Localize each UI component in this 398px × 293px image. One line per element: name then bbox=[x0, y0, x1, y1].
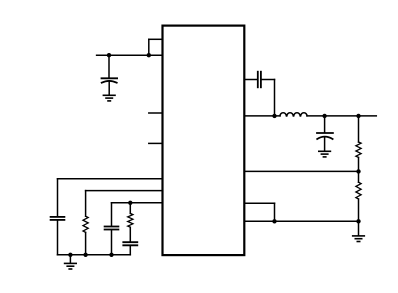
wire C2 to corner bbox=[262, 79, 275, 81]
ground G1 bbox=[103, 95, 115, 101]
inductor L1 bbox=[280, 113, 307, 116]
wire C4 bottom lead bbox=[57, 221, 59, 255]
wire C1 top lead bbox=[108, 55, 110, 77]
wire pin to C2 bbox=[244, 79, 257, 81]
wire VOUT rail left bbox=[244, 115, 280, 117]
node A junction at jog bbox=[147, 53, 151, 57]
wire R3 top lead bbox=[85, 191, 87, 217]
wire C6 bottom lead bbox=[129, 246, 131, 255]
wire R2 bottom lead bbox=[358, 199, 360, 221]
wire W3 to pin 5 bbox=[86, 190, 163, 192]
wire C4 top lead bbox=[57, 179, 59, 216]
wire W2 to pin 4 bbox=[58, 178, 163, 180]
wire C3 bottom lead bbox=[324, 137, 326, 151]
wire corner down to VOUT rail bbox=[274, 80, 276, 116]
IC U1 bbox=[163, 26, 245, 256]
node rail junction G4 bbox=[68, 253, 72, 257]
node rail junction C5 bbox=[109, 253, 113, 257]
wire G3 stub bbox=[358, 221, 360, 235]
node B junction on W4 bbox=[128, 201, 132, 205]
wire W4 to pin 6 bbox=[112, 202, 163, 204]
node VOUT junction R1 bbox=[356, 114, 360, 118]
wire W5 pin to R1/R2 bbox=[244, 170, 358, 172]
capacitor C6 bbox=[123, 242, 137, 245]
node W7 junction R2/G3 bbox=[356, 219, 360, 223]
wire R1 bottom lead bbox=[358, 157, 360, 171]
wire C1 bottom lead bbox=[108, 81, 110, 94]
pin stub left NC pin 2 bbox=[149, 112, 163, 114]
pin stub upper-left pin 1 bbox=[149, 38, 163, 40]
wire C5 top lead bbox=[111, 203, 113, 226]
resistor R1 bbox=[356, 142, 361, 157]
wire R2 top lead bbox=[358, 171, 360, 182]
wire R4 top lead bbox=[129, 203, 131, 214]
node VOUT junction C2 branch bbox=[272, 114, 276, 118]
resistor R2 bbox=[356, 182, 361, 199]
ground G3 bbox=[353, 236, 365, 242]
capacitor C5 bbox=[105, 227, 119, 230]
node rail junction R3 bbox=[83, 253, 87, 257]
ground G2 bbox=[319, 151, 331, 157]
ground G4 bbox=[65, 263, 77, 269]
wire ground rail bbox=[58, 254, 131, 256]
wire VOUT rail right bbox=[307, 115, 376, 117]
resistor R3 bbox=[83, 216, 88, 232]
resistor R4 bbox=[128, 213, 133, 227]
capacitor C3 bbox=[317, 133, 333, 139]
wire R1 top lead bbox=[358, 116, 360, 142]
capacitor C4 bbox=[51, 217, 65, 220]
wire C5 bottom lead bbox=[111, 230, 113, 254]
capacitor C1 bbox=[102, 78, 118, 82]
wire C3 top lead bbox=[324, 116, 326, 132]
wire node A horizontal bbox=[97, 54, 163, 56]
wire jog pin to W7 bbox=[244, 202, 274, 204]
pin stub left NC pin 3 bbox=[149, 142, 163, 144]
node FB junction bbox=[356, 169, 360, 173]
capacitor C2 bbox=[258, 72, 261, 88]
node A junction at C1 bbox=[107, 53, 111, 57]
wire jog pin1 to node A bbox=[148, 39, 150, 55]
wire R4 to C6 bbox=[129, 227, 131, 241]
node W7 junction jog bbox=[272, 219, 276, 223]
wire G4 stub bbox=[69, 255, 71, 263]
node VOUT junction C3 bbox=[322, 114, 326, 118]
wire jog vertical bbox=[274, 203, 276, 221]
wire R3 bottom lead bbox=[85, 232, 87, 254]
wire W7 bbox=[244, 220, 358, 222]
